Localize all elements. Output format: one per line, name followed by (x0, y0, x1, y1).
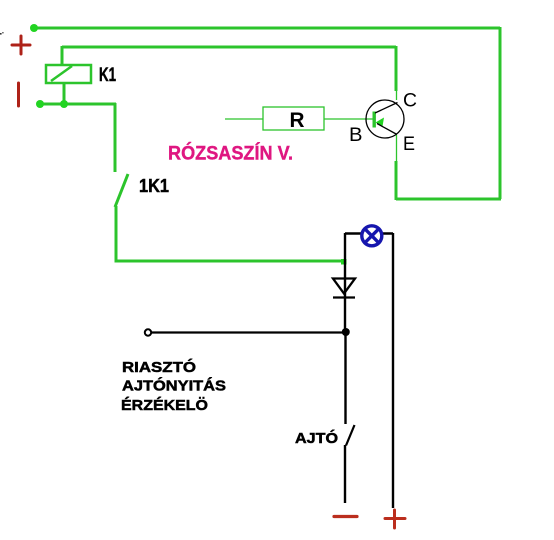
svg-text:ÉRZÉKELÖ: ÉRZÉKELÖ (121, 397, 208, 414)
wire down to door switch (344, 332, 346, 424)
transistor Q1 emitter arrow (PNP) (376, 118, 385, 127)
diode D1 (333, 279, 355, 298)
transistor Q1 collector stroke (375, 103, 398, 114)
wire from inner top down to relay K1 (61, 46, 64, 66)
wire down to switch 1K1 (114, 103, 117, 172)
wire collector vertical (395, 46, 399, 100)
wire emitter vertical (395, 135, 398, 200)
wire right outer vertical (499, 27, 502, 199)
node junction dot (342, 328, 350, 336)
node minus terminal dot (36, 100, 44, 108)
resistor R (263, 107, 324, 130)
transistor Q1 circle (366, 100, 404, 138)
svg-text:RIASZTÓ: RIASZTÓ (122, 358, 196, 376)
wire bottom of outer loop (396, 198, 501, 201)
wire left lead of resistor R (225, 118, 263, 120)
node green-black junction square (341, 259, 347, 265)
wire resistor to transistor base (324, 118, 374, 120)
svg-text:RÓZSASZÍN V.: RÓZSASZÍN V. (168, 143, 293, 165)
svg-text:B: B (349, 124, 363, 146)
switch 1K1 blade (115, 174, 128, 207)
power symbol + (battery plus, bottom) (385, 510, 405, 528)
wire top outer horizontal (34, 27, 500, 30)
svg-text:AJTÓ: AJTÓ (295, 429, 338, 447)
node relay junction dot (60, 100, 68, 108)
power symbol - (supply minus bar, left) (17, 83, 20, 106)
wire left black vertical through diode (344, 233, 346, 332)
svg-text:C: C (403, 90, 417, 112)
wire inner top horizontal to collector (62, 46, 396, 49)
wire node row horizontal (40, 103, 116, 106)
wire sensor horizontal black (151, 331, 346, 333)
svg-text:AJTÓNYITÁS: AJTÓNYITÁS (122, 377, 226, 395)
lamp L1 (362, 226, 382, 246)
wire right black vertical (392, 233, 394, 508)
stray pencil mark top left (0, 33, 2, 35)
switch AJTO blade (346, 425, 355, 446)
transistor Q1 base bar (373, 112, 376, 128)
svg-text:R: R (290, 109, 305, 132)
svg-text:K1: K1 (99, 65, 116, 86)
wire switch 1K1 to lamp line (116, 206, 345, 261)
wire door switch to minus (344, 445, 346, 503)
svg-text:E: E (403, 133, 415, 155)
transistor Q1 emitter stroke (377, 124, 397, 135)
power symbol + (supply plus, top left) (12, 36, 30, 54)
node sensor open terminal (145, 329, 151, 335)
relay coil K1 (46, 65, 91, 83)
wire lamp horizontal black (345, 232, 393, 234)
wire relay bottom to node row (63, 83, 66, 104)
power symbol - (battery minus, bottom) (334, 515, 357, 518)
node supply positive terminal dot (30, 24, 38, 32)
svg-text:1K1: 1K1 (139, 176, 169, 196)
